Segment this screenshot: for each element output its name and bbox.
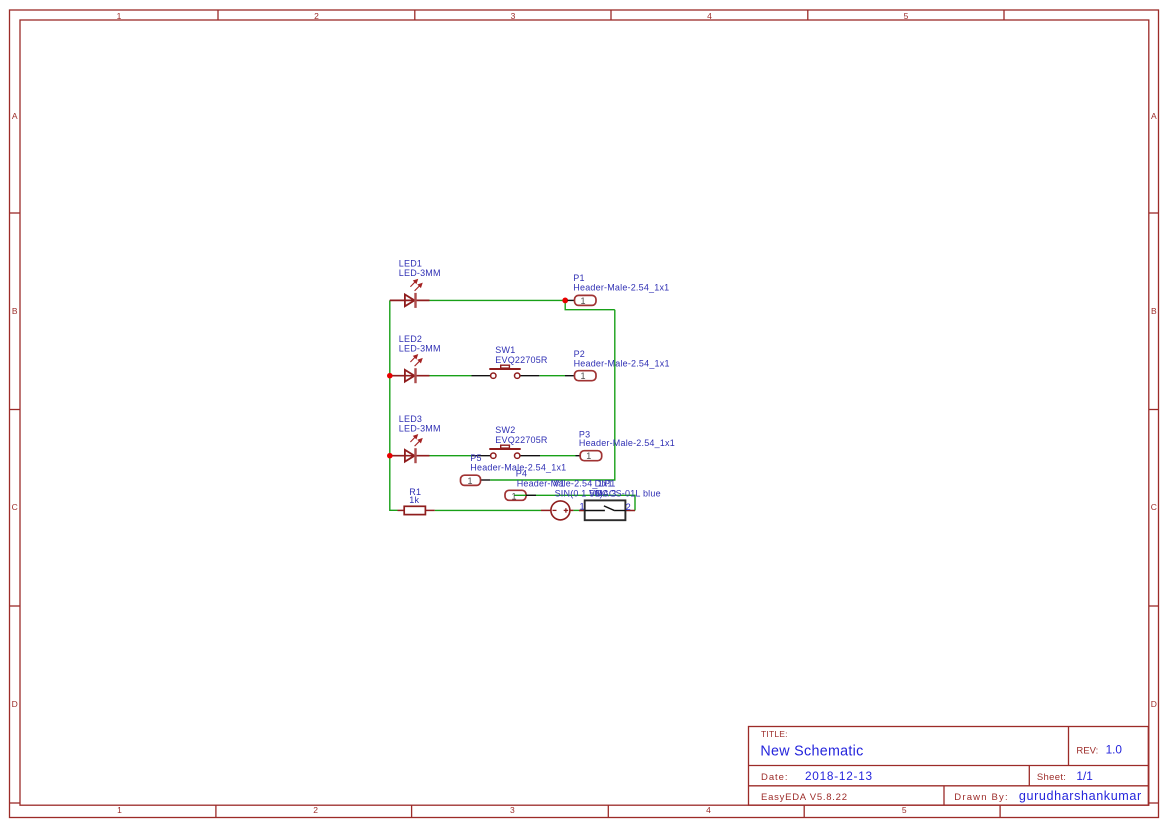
svg-text:C: C [1151, 502, 1157, 512]
svg-text:EVQ22705R: EVQ22705R [495, 355, 548, 365]
LED LED3 [390, 435, 430, 463]
svg-text:1: 1 [580, 296, 585, 306]
wire V1 to DIP1 pin 1 [573, 509, 584, 511]
svg-text:P5: P5 [470, 453, 481, 463]
svg-text:LED-3MM: LED-3MM [399, 268, 441, 278]
svg-text:2018-12-13: 2018-12-13 [805, 769, 873, 783]
junction P1 node [562, 298, 568, 304]
svg-text:1: 1 [117, 11, 122, 21]
svg-text:3: 3 [511, 11, 516, 21]
svg-text:gurudharshankumar: gurudharshankumar [1019, 789, 1142, 803]
header P3 [576, 451, 602, 462]
header P1 [568, 295, 597, 306]
voltage source V1 [541, 501, 573, 520]
svg-text:Date:: Date: [761, 772, 788, 783]
svg-text:2: 2 [626, 502, 631, 512]
svg-text:Drawn By:: Drawn By: [954, 792, 1007, 803]
svg-text:2: 2 [314, 11, 319, 21]
junction LED2 anode [387, 373, 393, 379]
reed relay DIP1 [579, 500, 635, 520]
wire SW1 to P2 [539, 375, 565, 377]
svg-text:1k: 1k [409, 495, 419, 505]
svg-text:Header-Male-2.54_1x1: Header-Male-2.54_1x1 [579, 438, 675, 448]
wire LED1 cathode to P1 junction [430, 299, 564, 301]
svg-text:5: 5 [902, 805, 907, 815]
junction LED3 anode [387, 453, 393, 459]
svg-text:C: C [12, 502, 18, 512]
svg-text:New Schematic: New Schematic [760, 744, 863, 760]
wire LED3 cathode to SW2 [430, 455, 472, 457]
svg-text:A: A [1151, 111, 1157, 121]
svg-text:1: 1 [580, 371, 585, 381]
switch SW2 [472, 445, 541, 458]
svg-text:1: 1 [580, 502, 585, 512]
svg-text:D: D [1151, 699, 1157, 709]
wire right rail down to P5 row [490, 310, 615, 480]
svg-text:P4: P4 [516, 469, 527, 479]
svg-text:SW1: SW1 [495, 345, 515, 355]
svg-text:MACS-01L blue: MACS-01L blue [595, 488, 661, 498]
svg-text:LED-3MM: LED-3MM [399, 343, 441, 353]
LED LED1 [390, 280, 430, 308]
wire left rail (LED anodes to R1) [390, 300, 398, 510]
svg-text:B: B [12, 306, 18, 316]
svg-text:1: 1 [117, 805, 122, 815]
svg-text:Header-Male-2.54_1x1: Header-Male-2.54_1x1 [574, 358, 670, 368]
svg-text:4: 4 [706, 805, 711, 815]
wire R1 to V1 [435, 509, 541, 511]
svg-text:P1: P1 [573, 273, 584, 283]
svg-text:EVQ22705R: EVQ22705R [495, 435, 548, 445]
svg-text:SW2: SW2 [495, 425, 515, 435]
svg-text:V1: V1 [554, 479, 565, 489]
svg-text:LED1: LED1 [399, 259, 422, 269]
svg-text:REV:: REV: [1076, 746, 1098, 757]
svg-text:1/1: 1/1 [1076, 769, 1092, 783]
resistor R1 [398, 506, 435, 514]
switch SW1 [472, 365, 540, 378]
LED LED2 [390, 355, 430, 383]
svg-text:5: 5 [904, 11, 909, 21]
svg-text:Sheet:: Sheet: [1037, 772, 1066, 783]
header P2 [565, 371, 596, 382]
svg-text:1: 1 [586, 451, 591, 461]
svg-text:1: 1 [511, 491, 516, 501]
svg-text:B: B [1151, 306, 1157, 316]
svg-text:DIP1: DIP1 [595, 479, 616, 489]
svg-text:3: 3 [510, 805, 515, 815]
wire P1 junction down and right to right rail [565, 300, 615, 309]
svg-text:4: 4 [707, 11, 712, 21]
svg-text:TITLE:: TITLE: [761, 729, 788, 739]
wire LED2 cathode to SW1 [430, 375, 472, 377]
wire P4 to relay pin 2 rail [536, 495, 635, 510]
wire SW2 to P3 [540, 455, 576, 457]
header P4 [505, 490, 536, 501]
svg-text:D: D [12, 699, 18, 709]
header P5 [461, 475, 491, 486]
svg-text:1.0: 1.0 [1106, 743, 1123, 757]
svg-text:1: 1 [467, 476, 472, 486]
svg-text:Header-Male-2.54_1x1: Header-Male-2.54_1x1 [573, 283, 669, 293]
svg-text:A: A [12, 111, 18, 121]
svg-text:LED-3MM: LED-3MM [399, 423, 441, 433]
svg-text:2: 2 [313, 805, 318, 815]
svg-text:EasyEDA V5.8.22: EasyEDA V5.8.22 [761, 792, 847, 803]
